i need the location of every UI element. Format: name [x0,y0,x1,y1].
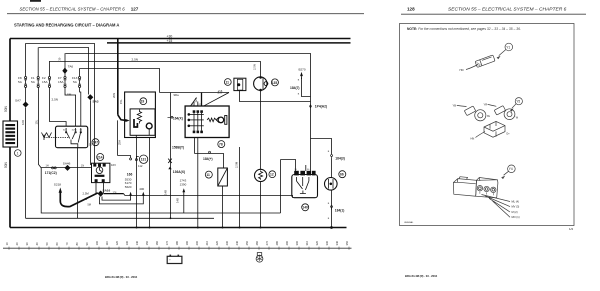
wire loop L2 F1 top [39,48,89,95]
wire from L5 down to relay row [160,89,230,106]
2,5M wire [234,147,239,228]
svg-text:240: 240 [235,240,239,245]
svg-text:SA7: SA7 [15,99,21,103]
svg-text:50N: 50N [4,105,8,112]
svg-text:Y5: Y5 [516,100,520,104]
svg-text:16R: 16R [21,120,25,125]
svg-text:330: 330 [325,240,329,245]
svg-text:12N: 12N [194,98,198,103]
164(X) terminal label [168,116,183,120]
left header rule [7,13,364,15]
spade terminal Y1 [459,43,513,72]
svg-text:230: 230 [225,240,229,245]
svg-text:300: 300 [295,240,299,245]
svg-text:184(+): 184(+) [203,157,213,161]
connector 131 leads [118,155,148,168]
svg-text:HN: HN [471,137,475,141]
long wire node 136A chain [164,93,186,219]
svg-text:166: 166 [127,173,133,177]
184(3) terminal [328,151,345,160]
svg-text:250: 250 [245,240,249,245]
svg-text:YB: YB [453,103,457,107]
alternator 135 [252,64,278,169]
svg-text:110: 110 [105,241,109,246]
svg-text:BRA 84.4M (R) - 03 - 2004: BRA 84.4M (R) - 03 - 2004 [405,274,438,278]
relay 78 ground pin wire [197,138,199,228]
svg-text:1,5M: 1,5M [65,93,72,97]
svg-text:200: 200 [195,240,199,245]
svg-text:78: 78 [219,143,223,147]
svg-text:260: 260 [255,240,259,245]
svg-text:SA3: SA3 [93,99,99,103]
svg-text:350: 350 [345,240,349,245]
svg-text:120: 120 [115,240,119,245]
svg-text:220: 220 [215,240,219,245]
svg-text:B270: B270 [299,68,306,72]
svg-text:1: 1 [17,151,19,155]
svg-text:11: 11 [226,80,230,84]
+30 bus [10,38,351,40]
svg-text:184(7): 184(7) [290,86,300,90]
svg-text:15A: 15A [58,80,64,84]
3-way connector Y4 [453,165,519,219]
svg-text:280: 280 [275,240,279,245]
SA7 junction [15,99,29,219]
fuse F8 5A [18,43,27,102]
svg-text:127: 127 [131,7,139,12]
svg-text:SECTION 55 – ELECTRICAL SYSTEM: SECTION 55 – ELECTRICAL SYSTEM – CHAPTER… [20,7,126,12]
fuse F7 15A / TA6 junction [58,53,76,126]
wires from unit 19 down to ground bus [136,138,138,228]
svg-text:1/2: 1/2 [569,227,574,231]
svg-text:140: 140 [302,206,308,210]
resistor circuit 11 [195,138,228,228]
lower collector wire H1 [41,168,280,214]
svg-text:180: 180 [175,240,179,245]
svg-text:2,5N: 2,5N [52,98,59,102]
leader lines [482,195,511,218]
svg-text:2,5N: 2,5N [132,58,139,62]
svg-text:19: 19 [141,100,145,104]
svg-text:158B(T): 158B(T) [172,146,184,150]
svg-text:320: 320 [315,240,319,245]
svg-text:+30: +30 [167,34,173,38]
svg-text:BRA 84.4M (R) - 03 - 2004: BRA 84.4M (R) - 03 - 2004 [105,275,138,279]
branch to starter [311,139,332,155]
svg-text:130: 130 [125,240,129,245]
bulb legend icon [256,253,263,263]
svg-text:UMGRAL: UMGRAL [404,221,414,224]
svg-text:S218: S218 [54,183,62,187]
svg-text:15L: 15L [119,99,123,104]
svg-text:1N: 1N [81,164,84,167]
SA3 junction [87,94,98,165]
svg-text:147: 147 [93,141,99,145]
svg-text:160: 160 [155,240,159,245]
ring terminal YB [453,103,491,121]
relay 78 [185,106,229,148]
regulator small box 11 [218,78,311,101]
svg-text:270: 270 [265,240,269,245]
svg-text:1P4(A2): 1P4(A2) [315,105,327,109]
171(C2) row with SA46 [41,161,91,175]
svg-text:184(1): 184(1) [335,208,345,212]
right header rule [401,13,586,15]
svg-text:164(X): 164(X) [173,117,183,121]
svg-text:+15: +15 [167,39,173,43]
starter motor 66 [325,159,346,229]
ignition switch 140 [281,139,318,211]
page ref 1743/1390 [176,179,187,213]
svg-text:112: 112 [138,164,143,168]
svg-text:Y60: Y60 [459,68,464,72]
svg-text:M (2): M (2) [512,210,518,214]
svg-text:140: 140 [135,240,139,245]
svg-text:2,5M: 2,5M [83,192,90,196]
SA16 junction [83,188,293,206]
ground bus junction dots [136,227,262,229]
svg-text:1H: 1H [46,164,49,167]
hour meter 214 [92,154,117,194]
svg-text:SECTION 55 – ELECTRICAL SYSTEM: SECTION 55 – ELECTRICAL SYSTEM – CHAPTER… [448,7,567,13]
svg-text:210: 210 [205,240,209,245]
svg-text:ML (4): ML (4) [512,199,520,203]
svg-text:15A: 15A [42,80,48,84]
ground lead S218 [54,183,98,207]
scan speck top edge [30,0,41,2]
ring terminal YR with Y5 [484,98,523,120]
svg-text:TA6: TA6 [68,65,74,69]
svg-text:50N: 50N [4,161,8,168]
wire loop L5 F13 top [80,69,160,93]
note box [400,24,575,231]
svg-text:14B: 14B [176,198,180,203]
svg-text:170: 170 [165,240,169,245]
wire loop L4 TA6 to right column [66,54,311,139]
svg-text:STARTING AND RECHARGING CIRCUI: STARTING AND RECHARGING CIRCUIT – DIAGRA… [14,22,119,27]
svg-text:184(3): 184(3) [335,156,345,160]
fuse F1 5A [31,48,41,168]
coordinate ruler [3,240,352,249]
1P4(A2) connector [309,104,327,109]
page ref labels 166 group [99,173,144,204]
wire loop L1 F8 top [26,44,95,164]
svg-text:14B: 14B [164,190,168,195]
svg-text:2,5M: 2,5M [234,161,238,168]
svg-text:25A: 25A [118,140,122,145]
battery cable 50N left frame [9,39,11,228]
svg-text:15L: 15L [35,119,39,124]
svg-text:YR: YR [484,102,488,106]
svg-text:131: 131 [141,158,147,162]
svg-text:310: 310 [305,240,309,245]
svg-text:135: 135 [272,81,278,85]
svg-text:SA46: SA46 [63,161,71,165]
svg-text:5620: 5620 [125,185,132,189]
svg-text:12: 12 [270,173,274,177]
svg-text:290: 290 [285,240,289,245]
key linkage symbol [42,133,70,141]
svg-text:15/54: 15/54 [72,130,78,132]
wire from switch area down [280,160,282,214]
thick feed to glowplug unit 19 [112,39,129,156]
+15 bus [107,42,351,44]
svg-text:Y4: Y4 [509,167,513,171]
switch 147 output wire down [77,148,79,219]
wire loop L3 F2 to alternator 2,5N [50,62,261,78]
svg-text:MV (3): MV (3) [512,205,520,209]
svg-text:1390: 1390 [180,182,187,186]
ignition key switch 147 [35,119,100,147]
svg-text:NOTE: For the connections not: NOTE: For the connections not mentioned,… [407,27,521,31]
svg-text:190: 190 [185,240,189,245]
connector left sleeve [453,179,476,197]
svg-text:2,5N: 2,5N [252,64,256,70]
svg-text:214: 214 [97,155,103,159]
svg-text:340: 340 [335,240,339,245]
svg-text:136A(X): 136A(X) [173,170,185,174]
svg-text:9Ra: 9Ra [174,93,180,97]
svg-text:171(C2): 171(C2) [45,171,57,175]
connector cavity block [476,178,498,198]
svg-text:2,5: 2,5 [218,90,223,94]
lower collector wire H2 [26,217,215,219]
svg-text:11: 11 [206,173,210,177]
svg-text:128: 128 [407,7,415,12]
svg-text:5M: 5M [88,204,91,207]
svg-text:MO (1): MO (1) [512,215,520,219]
fuse F13 5A [72,68,81,126]
ground bus bottom [10,227,347,229]
connector block HN [471,121,511,140]
temperature sender 12 [255,169,276,227]
svg-text:Y1: Y1 [506,45,510,49]
svg-text:150: 150 [145,240,149,245]
svg-text:16V: 16V [111,163,116,167]
svg-text:20N: 20N [112,93,116,98]
battery 1 [3,121,21,156]
svg-text:66: 66 [340,173,344,177]
svg-text:SA16: SA16 [103,188,111,192]
battery legend icon [167,255,182,264]
svg-text:400: 400 [139,187,144,191]
thermostarter unit 19 [125,92,156,138]
svg-text:100: 100 [95,240,99,245]
fuse F2 15A [42,61,66,126]
B270 stub [290,68,311,97]
